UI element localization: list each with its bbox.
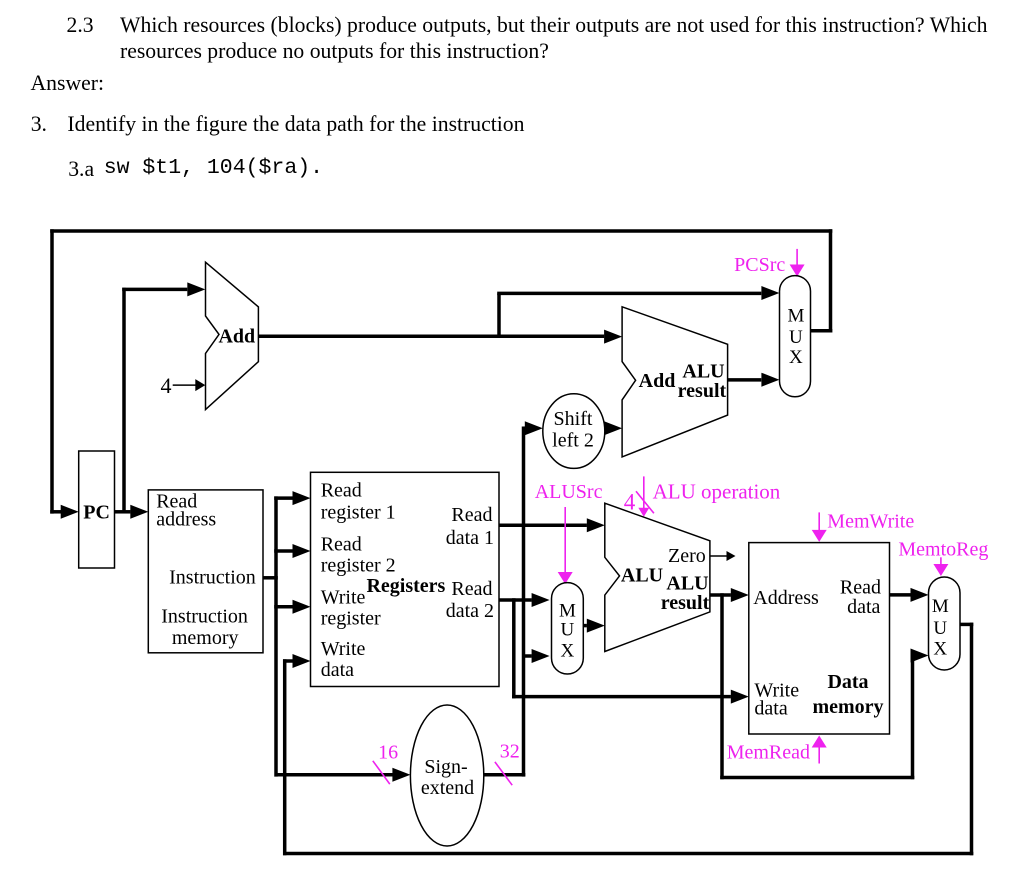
svg-text:extend: extend <box>421 777 474 799</box>
svg-text:ALUSrc: ALUSrc <box>535 481 603 503</box>
svg-text:Data: Data <box>827 671 868 693</box>
svg-text:M: M <box>787 306 804 327</box>
svg-text:PC: PC <box>83 502 110 524</box>
svg-text:Read: Read <box>321 534 362 556</box>
svg-text:Write: Write <box>321 587 366 609</box>
svg-text:memory: memory <box>172 627 239 649</box>
svg-text:Shift: Shift <box>554 408 593 430</box>
svg-text:Instruction: Instruction <box>169 567 256 589</box>
svg-text:Sign-: Sign- <box>424 756 467 778</box>
svg-text:memory: memory <box>812 696 883 718</box>
svg-text:X: X <box>933 639 947 660</box>
svg-text:Write: Write <box>321 638 366 660</box>
svg-text:32: 32 <box>500 741 520 763</box>
svg-text:4: 4 <box>161 373 172 398</box>
svg-text:X: X <box>789 347 803 368</box>
svg-text:Read: Read <box>451 504 492 526</box>
svg-text:Add: Add <box>639 370 676 392</box>
svg-text:result: result <box>661 592 710 614</box>
svg-text:data: data <box>847 596 880 618</box>
svg-text:register 1: register 1 <box>321 502 396 524</box>
svg-text:data 2: data 2 <box>446 600 494 622</box>
svg-text:Zero: Zero <box>668 545 706 567</box>
svg-text:data: data <box>321 659 354 681</box>
svg-text:address: address <box>156 509 216 531</box>
svg-text:Address: Address <box>753 587 819 609</box>
svg-text:ALU: ALU <box>621 564 663 586</box>
svg-text:MemRead: MemRead <box>727 742 810 764</box>
svg-text:result: result <box>678 380 727 402</box>
svg-text:data: data <box>754 697 787 719</box>
svg-text:ALU operation: ALU operation <box>653 479 781 503</box>
svg-text:left 2: left 2 <box>552 430 594 452</box>
svg-text:register: register <box>321 608 381 630</box>
svg-text:MemtoReg: MemtoReg <box>898 539 988 561</box>
svg-text:Registers: Registers <box>366 575 445 597</box>
svg-text:U: U <box>561 619 575 640</box>
svg-text:Instruction: Instruction <box>161 605 248 627</box>
svg-text:X: X <box>561 640 575 661</box>
svg-text:M: M <box>932 596 949 617</box>
svg-text:Read: Read <box>321 480 362 502</box>
svg-text:U: U <box>789 327 803 348</box>
svg-text:data 1: data 1 <box>446 527 494 549</box>
svg-text:register 2: register 2 <box>321 555 396 577</box>
svg-text:Add: Add <box>218 325 255 347</box>
svg-text:16: 16 <box>378 742 398 764</box>
svg-text:U: U <box>933 618 947 639</box>
svg-text:MemWrite: MemWrite <box>827 511 914 533</box>
svg-text:Read: Read <box>451 578 492 600</box>
svg-text:PCSrc: PCSrc <box>734 254 785 276</box>
svg-text:M: M <box>559 601 576 622</box>
